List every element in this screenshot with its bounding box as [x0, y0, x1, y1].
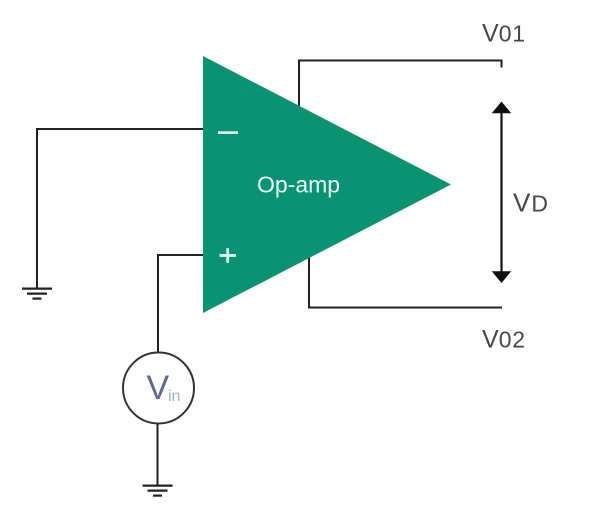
svg-text:Op-amp: Op-amp [257, 172, 340, 198]
svg-text:in: in [168, 388, 180, 405]
svg-text:VD: VD [513, 188, 548, 218]
svg-text:V01: V01 [482, 19, 526, 47]
svg-text:V02: V02 [482, 326, 526, 354]
svg-text:V: V [147, 369, 170, 407]
